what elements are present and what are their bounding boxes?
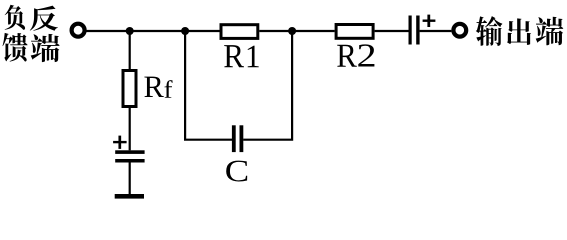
label char 反 (input line1) <box>30 6 58 31</box>
label R1 <box>224 45 259 67</box>
capacitor C left plate <box>232 125 236 152</box>
label R2 <box>337 44 374 66</box>
wire: R2 to output capacitor <box>375 30 409 32</box>
resistor R2 body <box>336 25 373 39</box>
label char 输 (output) <box>476 16 502 46</box>
wire: output capacitor to output terminal <box>420 30 452 32</box>
wire: C loop left side <box>185 31 232 140</box>
resistor Rf body <box>123 71 136 107</box>
label char 出 (output) <box>507 18 531 44</box>
label char 负 (input line1) <box>5 5 25 30</box>
bypass electrolytic capacitor plate top <box>115 150 144 154</box>
resistor R1 body <box>221 25 258 39</box>
junction node B (R1/C left) <box>181 27 189 35</box>
label char 馈 (input line2) <box>3 33 28 62</box>
label char 端 (output) <box>536 17 564 45</box>
wire: bypass capacitor to ground <box>129 163 131 195</box>
output coupling capacitor right plate <box>416 16 419 45</box>
junction node A (Rf branch) <box>126 27 134 35</box>
label C <box>226 161 247 182</box>
bypass electrolytic capacitor plate bottom <box>115 159 144 163</box>
wire: node A down to Rf <box>129 31 131 69</box>
input terminal circle <box>72 24 85 37</box>
bypass capacitor polarity + <box>113 136 127 149</box>
wire: input terminal to R1 <box>87 30 220 32</box>
capacitor C right plate <box>240 125 244 152</box>
label char 端 (input line2) <box>31 34 60 62</box>
junction node D (R1/C right) <box>288 27 296 35</box>
wire: R1 to R2 <box>259 30 334 32</box>
label Rf <box>144 77 172 98</box>
ground bar <box>115 194 144 199</box>
output capacitor polarity + <box>423 15 436 27</box>
wire: Rf to bypass capacitor <box>129 108 131 150</box>
wire: C loop right side <box>243 31 292 140</box>
output terminal circle <box>453 24 466 37</box>
output coupling capacitor left plate <box>409 16 412 45</box>
